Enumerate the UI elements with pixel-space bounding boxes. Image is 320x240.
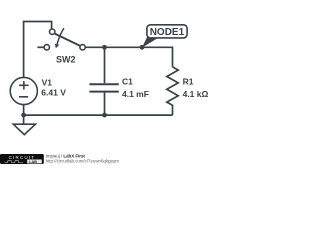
svg-text:R1: R1	[183, 76, 194, 86]
node flag NODE1	[142, 25, 187, 48]
ground	[13, 115, 35, 135]
svg-text:http://circuitlab.com/c/7euwn6: http://circuitlab.com/c/7euwn6qkppqm	[46, 158, 120, 163]
wire SW2 common to R1 top	[85, 47, 172, 67]
svg-text:C1: C1	[122, 76, 133, 86]
wire V1 plus to SW2 top throw	[24, 22, 52, 78]
svg-text:LAB: LAB	[29, 160, 37, 164]
svg-text:V1: V1	[42, 78, 53, 88]
resistor R1	[167, 67, 178, 115]
wire bottom rail	[24, 114, 173, 116]
capacitor C1	[89, 47, 118, 115]
junction dot at C1 top	[102, 45, 107, 50]
svg-text:4.1 mF: 4.1 mF	[122, 89, 149, 99]
watermark logo CircuitLab	[0, 154, 44, 164]
junction dot at ground	[21, 113, 26, 118]
switch SW2	[37, 28, 85, 50]
voltage source V1	[10, 77, 37, 115]
junction dot NODE1 attach	[140, 45, 145, 50]
svg-text:NODE1: NODE1	[150, 27, 185, 38]
watermark text	[46, 153, 120, 163]
svg-text:4.1 kΩ: 4.1 kΩ	[183, 89, 209, 99]
svg-text:SW2: SW2	[56, 54, 76, 64]
junction dot C1 bottom	[102, 113, 107, 118]
svg-text:6.41 V: 6.41 V	[41, 87, 66, 97]
